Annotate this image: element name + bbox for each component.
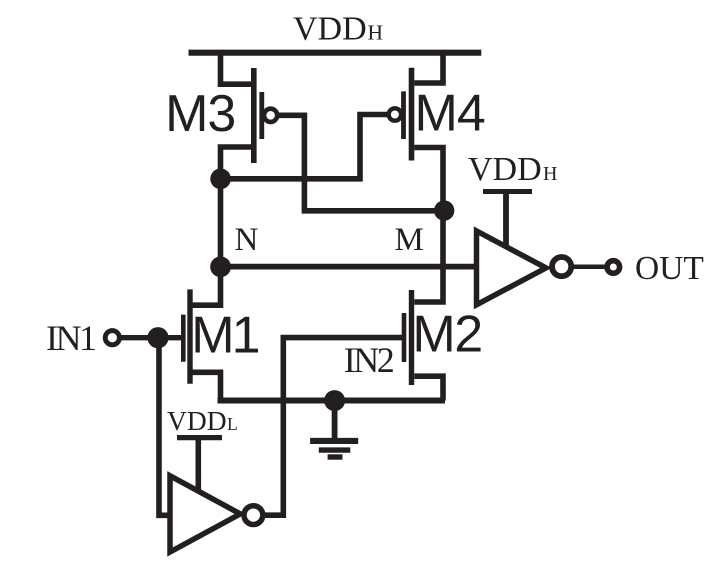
svg-text:M4: M4 — [415, 84, 485, 142]
svg-text:VDD: VDD — [468, 151, 542, 188]
svg-text:OUT: OUT — [635, 250, 704, 287]
svg-text:L: L — [227, 414, 238, 434]
svg-text:H: H — [543, 163, 557, 185]
svg-text:H: H — [368, 21, 384, 45]
svg-text:VDD: VDD — [167, 405, 227, 436]
svg-text:VDD: VDD — [293, 11, 367, 48]
svg-text:IN1: IN1 — [46, 318, 95, 358]
svg-text:IN2: IN2 — [344, 340, 394, 380]
svg-text:N: N — [235, 222, 259, 258]
svg-text:M1: M1 — [191, 306, 258, 364]
svg-text:M2: M2 — [412, 306, 481, 364]
svg-text:M3: M3 — [165, 85, 235, 143]
svg-text:M: M — [395, 222, 424, 258]
